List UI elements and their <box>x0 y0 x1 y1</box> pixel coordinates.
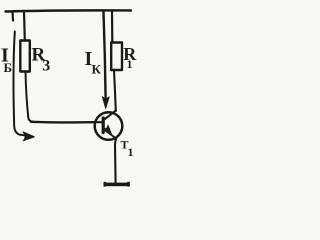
transistor T1 collector diagonal <box>104 111 116 120</box>
wire from R3 down to base corner <box>26 72 34 122</box>
ground <box>104 183 130 187</box>
svg-text:1: 1 <box>127 57 133 71</box>
resistor R3 <box>20 41 30 72</box>
svg-text:3: 3 <box>42 58 50 75</box>
wire from rail to resistor R1 <box>111 11 114 43</box>
wire top supply rail <box>6 10 132 11</box>
current arrow I_B line <box>13 32 24 136</box>
resistor R1 <box>111 43 122 71</box>
svg-text:К: К <box>92 62 102 77</box>
current arrow I_K line <box>104 12 106 97</box>
svg-text:Б: Б <box>4 60 13 75</box>
current arrow I_K head <box>102 97 109 109</box>
transistor T1 emitter diagonal <box>104 130 116 139</box>
transistor T1 emitter arrow head (PNP, pointing to base) <box>104 125 112 135</box>
transistor T1 base lead inside <box>96 121 103 123</box>
transistor T1 base bar <box>102 118 105 133</box>
transistor T1 circle <box>95 112 123 140</box>
wire left rail stub <box>11 12 14 21</box>
wire base horizontal to transistor <box>31 121 96 124</box>
svg-text:1: 1 <box>128 145 134 159</box>
wire from rail to resistor R3 <box>23 11 26 41</box>
wire emitter down to ground <box>115 139 116 184</box>
current arrow I_B head <box>23 132 34 141</box>
wire from R1 down to collector <box>114 70 116 111</box>
